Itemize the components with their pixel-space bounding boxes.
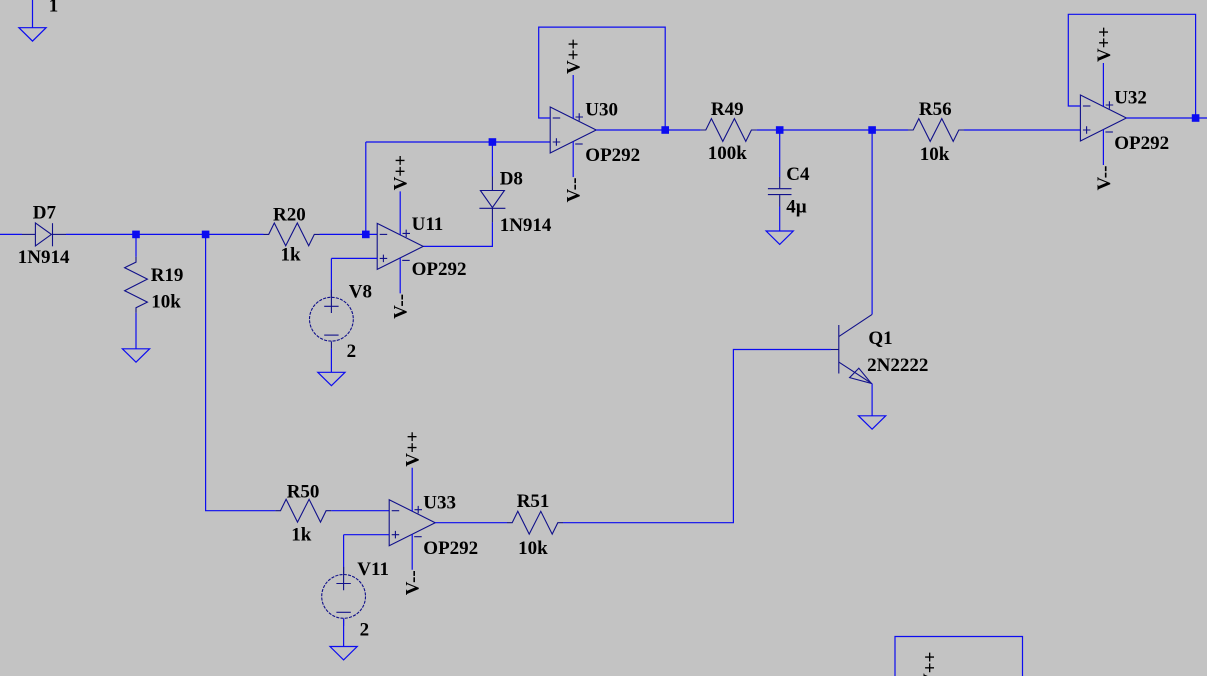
wire bottom-right feedback loop xyxy=(895,637,1023,676)
svg-text:V++: V++ xyxy=(403,431,424,466)
wire Q1 base path xyxy=(563,350,831,523)
svg-text:V--: V-- xyxy=(564,178,585,203)
svg-text:V11: V11 xyxy=(357,559,389,580)
node U30 output junction xyxy=(661,126,669,134)
ground below V11 xyxy=(330,647,357,660)
svg-text:U33: U33 xyxy=(423,492,456,513)
ground below Q1 xyxy=(859,416,886,429)
diode D7 xyxy=(22,223,66,246)
node C4 junction xyxy=(776,126,784,134)
wire R19 to ground xyxy=(135,313,137,349)
svg-text:1N914: 1N914 xyxy=(500,215,552,236)
wire node up to feedback rail xyxy=(365,142,367,234)
svg-text:C4: C4 xyxy=(786,164,810,185)
wire R50 to U33 inverting input xyxy=(331,510,389,512)
ground below V8 xyxy=(318,372,345,385)
op-amp U30 xyxy=(550,75,596,177)
node U32 output junction xyxy=(1192,114,1200,122)
svg-text:1k: 1k xyxy=(291,525,312,546)
wire R49 to R56 xyxy=(757,129,908,131)
wire U30 feedback loop xyxy=(539,27,666,130)
resistor R51 xyxy=(507,511,563,534)
svg-text:2: 2 xyxy=(360,619,370,640)
svg-text:100k: 100k xyxy=(708,143,748,164)
wire V8 to ground xyxy=(330,349,332,373)
wire V11 to ground xyxy=(343,619,345,647)
wire U30 output xyxy=(596,129,700,131)
wire R20 to U11 inverting input xyxy=(320,233,378,235)
svg-text:U30: U30 xyxy=(585,100,618,121)
svg-text:10k: 10k xyxy=(151,291,181,312)
wire junction to Q1 collector xyxy=(871,130,873,314)
svg-text:OP292: OP292 xyxy=(1114,133,1169,154)
wire junction down to D8 xyxy=(491,142,493,177)
node Q1 collector junction xyxy=(868,126,876,134)
diode D8 xyxy=(479,177,505,223)
wire input to D7 anode xyxy=(0,233,22,235)
svg-text:V--: V-- xyxy=(403,570,424,595)
resistor R20 xyxy=(264,223,320,246)
wire feedback rail to U30 noninverting input xyxy=(366,141,550,143)
svg-text:D7: D7 xyxy=(33,202,57,223)
wire C4 to ground xyxy=(779,207,781,232)
svg-text:D8: D8 xyxy=(500,168,523,189)
svg-text:OP292: OP292 xyxy=(585,145,640,166)
ground net 1 xyxy=(19,28,46,41)
node junction R19 xyxy=(132,231,140,239)
svg-text:R20: R20 xyxy=(273,204,306,225)
svg-text:V--: V-- xyxy=(1094,166,1115,191)
wire junction to R19 xyxy=(135,234,137,257)
svg-text:U11: U11 xyxy=(412,214,444,235)
resistor R19 xyxy=(125,257,148,313)
svg-text:OP292: OP292 xyxy=(412,259,467,280)
wire R56 to U32 noninverting input xyxy=(964,129,1080,131)
svg-text:Q1: Q1 xyxy=(868,328,892,349)
wire U32 output xyxy=(1126,117,1207,119)
svg-text:2N2222: 2N2222 xyxy=(867,355,928,376)
svg-text:OP292: OP292 xyxy=(423,538,478,559)
svg-text:10k: 10k xyxy=(920,144,950,165)
capacitor C4 xyxy=(768,177,792,207)
svg-text:U32: U32 xyxy=(1114,88,1147,109)
resistor R50 xyxy=(275,499,331,522)
svg-text:V8: V8 xyxy=(349,282,372,303)
wire D7 cathode to R20 xyxy=(66,233,264,235)
svg-text:1: 1 xyxy=(49,0,59,17)
svg-text:R50: R50 xyxy=(287,482,320,503)
svg-text:V++: V++ xyxy=(1094,27,1115,62)
voltage source V11 xyxy=(322,567,366,626)
op-amp U33 xyxy=(389,468,435,570)
wire D8 cathode to U11 output xyxy=(423,222,492,246)
svg-text:1k: 1k xyxy=(281,244,302,265)
ground below C4 xyxy=(766,231,793,244)
resistor R56 xyxy=(908,119,964,142)
svg-text:R19: R19 xyxy=(151,265,184,286)
resistor R49 xyxy=(701,119,757,142)
node junction branch to R50 xyxy=(202,231,210,239)
wire junction to C4 xyxy=(779,130,781,177)
op-amp U32 xyxy=(1080,63,1126,165)
transistor Q1 xyxy=(831,314,872,383)
svg-text:R49: R49 xyxy=(711,99,744,120)
svg-text:10k: 10k xyxy=(518,538,548,559)
wire U33 output to R51 xyxy=(435,522,507,524)
svg-text:V++: V++ xyxy=(391,155,412,190)
node junction feedback rail xyxy=(362,231,370,239)
wire Q1 emitter to ground xyxy=(871,384,873,416)
wire net 1 stub xyxy=(32,0,34,28)
svg-text:R56: R56 xyxy=(919,99,952,120)
wire branch down to R50 xyxy=(206,234,276,510)
svg-text:V++: V++ xyxy=(920,652,941,676)
svg-text:1N914: 1N914 xyxy=(18,247,70,268)
svg-text:V++: V++ xyxy=(564,39,585,74)
wire V11 to U33 noninverting input xyxy=(344,535,390,571)
svg-text:2: 2 xyxy=(347,341,357,362)
svg-text:4µ: 4µ xyxy=(786,196,807,217)
node D8 anode junction xyxy=(489,138,497,146)
wire V8 to U11 noninverting input xyxy=(331,258,377,293)
ground below R19 xyxy=(122,349,149,362)
svg-text:R51: R51 xyxy=(517,491,550,512)
svg-text:V--: V-- xyxy=(391,294,412,319)
voltage source V8 xyxy=(310,290,354,349)
op-amp U11 xyxy=(377,191,423,293)
wire U32 feedback loop xyxy=(1068,14,1195,118)
